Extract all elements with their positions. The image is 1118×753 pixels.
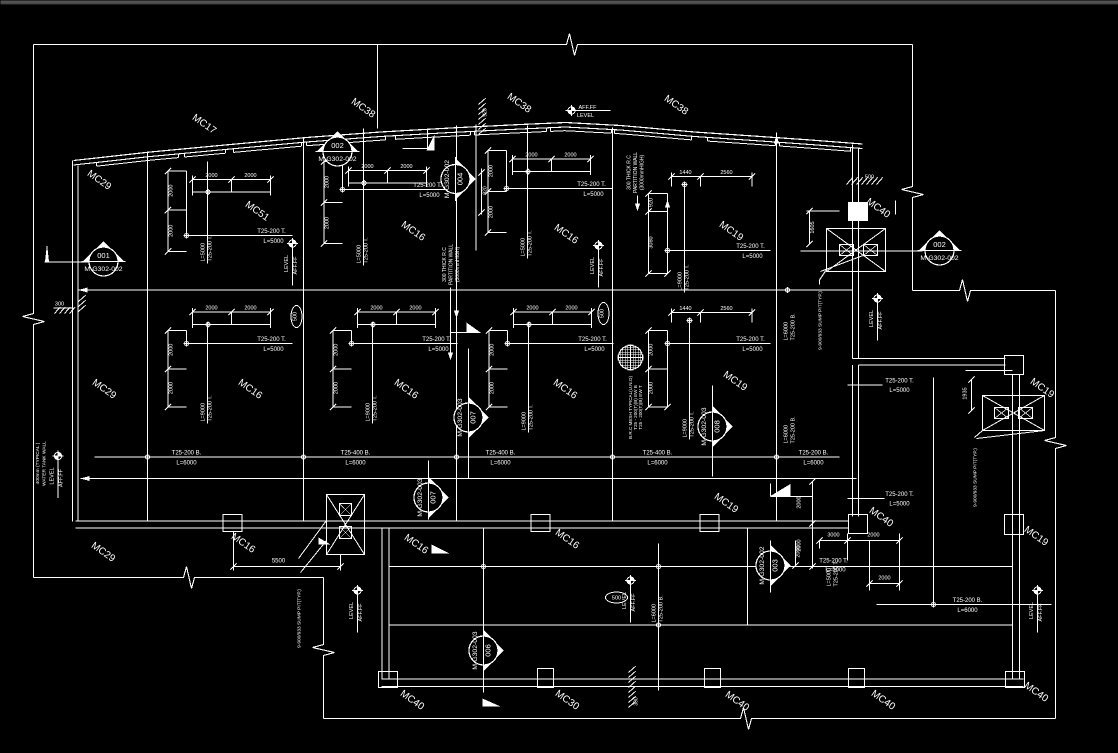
label MC29 at 102,391 <box>90 377 119 402</box>
svg-text:500: 500 <box>293 312 299 321</box>
svg-text:2000: 2000 <box>490 344 496 356</box>
svg-text:500: 500 <box>600 309 606 318</box>
svg-text:AFF.FF: AFF.FF <box>59 468 65 487</box>
svg-text:T25-200 T.: T25-200 T. <box>373 395 379 422</box>
label MC16 at 404,391 <box>392 377 421 402</box>
lower interior y624 <box>389 624 1013 626</box>
svg-text:004: 004 <box>456 173 465 186</box>
svg-text:L=6000: L=6000 <box>784 425 790 444</box>
label MC19 at 724,505 <box>712 491 741 516</box>
svg-text:T25-200 B.: T25-200 B. <box>172 451 202 457</box>
lower bldg corner col SW <box>379 672 398 688</box>
svg-text:2000: 2000 <box>325 217 331 229</box>
cut line x475 <box>475 125 477 251</box>
svg-text:T25-400 B.: T25-400 B. <box>486 451 516 457</box>
svg-text:2000: 2000 <box>370 306 382 312</box>
bay line 5 <box>612 128 614 522</box>
svg-text:L=5000: L=5000 <box>521 238 527 257</box>
svg-text:T25-200 T.: T25-200 T. <box>422 337 451 343</box>
svg-text:9-900/933 SUMP PIT(TYP.): 9-900/933 SUMP PIT(TYP.) <box>973 448 979 507</box>
svg-text:T25-200 T.: T25-200 T. <box>578 337 607 343</box>
oval 500 c <box>606 592 628 603</box>
right mid wall lower <box>853 365 859 517</box>
svg-text:AFF.FF: AFF.FF <box>1038 603 1044 622</box>
svg-text:AFF.FF: AFF.FF <box>293 256 299 275</box>
svg-text:2000: 2000 <box>867 533 879 539</box>
svg-text:L=5000: L=5000 <box>357 245 363 264</box>
svg-text:001: 001 <box>97 251 110 260</box>
callout 004 <box>441 157 476 201</box>
stub x895 top <box>895 201 897 215</box>
svg-text:T25-200 T.: T25-200 T. <box>834 560 840 587</box>
label MC40 at 881,702 <box>869 688 898 713</box>
bar text lower <box>953 598 983 614</box>
callout 001 <box>45 242 126 277</box>
wall column col709 <box>700 515 719 532</box>
dim 5500 <box>230 532 343 571</box>
label MC38 c <box>662 93 691 118</box>
svg-text:LEVEL: LEVEL <box>869 310 875 327</box>
lower bldg bottom wall <box>382 679 1024 687</box>
water tank text <box>35 441 48 486</box>
svg-text:3080: 3080 <box>649 236 655 248</box>
svg-text:L=9000: L=9000 <box>522 412 528 431</box>
dim cluster bay2 row1 <box>165 162 293 264</box>
label MC19 at 729,233 <box>717 219 746 244</box>
svg-text:AFF.FF: AFF.FF <box>599 258 605 277</box>
wall end column <box>849 515 868 534</box>
label MC51 at 255,213 <box>243 199 272 224</box>
label MC38 b <box>505 91 534 116</box>
svg-text:2000: 2000 <box>526 306 538 312</box>
callout 007 a <box>454 349 489 479</box>
label MC40 at 879,519 <box>867 505 896 530</box>
svg-text:2000: 2000 <box>878 576 890 582</box>
svg-text:L=5000: L=5000 <box>827 568 833 587</box>
svg-text:1440: 1440 <box>679 306 691 312</box>
partition text bay3 <box>442 244 461 319</box>
flag lower bldg small <box>319 538 331 545</box>
svg-text:2000: 2000 <box>797 496 803 508</box>
svg-text:T25-400 B.: T25-400 B. <box>341 451 371 457</box>
level sym bay2 row1 <box>284 238 299 286</box>
hatch arc right <box>847 175 883 185</box>
label MC16 at 241,545 <box>229 531 258 556</box>
svg-text:002: 002 <box>933 240 946 249</box>
label MC38 a <box>349 96 378 121</box>
upper building bottom wall <box>76 521 849 528</box>
label MC19 at 733,383 <box>721 369 750 394</box>
svg-text:M-G302-002: M-G302-002 <box>759 546 766 584</box>
svg-text:2000: 2000 <box>169 382 175 394</box>
lower wall column 856 <box>849 669 865 688</box>
svg-text:T25-200 T.: T25-200 T. <box>885 492 914 498</box>
svg-text:2000: 2000 <box>169 225 175 237</box>
svg-text:300: 300 <box>634 697 640 706</box>
svg-text:008: 008 <box>713 420 722 433</box>
dim cluster bay4 row1 <box>485 126 613 259</box>
svg-text:3000: 3000 <box>827 533 839 539</box>
rot text x658 <box>652 595 665 623</box>
lower wall column 545 <box>538 669 554 688</box>
top window strip <box>1 1 1118 5</box>
svg-text:2000: 2000 <box>244 173 256 179</box>
interior line y287 <box>79 287 853 293</box>
dim 2000 at 003 <box>792 541 801 569</box>
lower right dims <box>770 478 903 590</box>
svg-text:2560: 2560 <box>720 306 732 312</box>
svg-text:T25-200 T.: T25-200 T. <box>577 182 606 188</box>
svg-text:5500: 5500 <box>272 559 286 565</box>
svg-text:L=9000: L=9000 <box>201 403 207 422</box>
right wall column top <box>1005 356 1024 375</box>
svg-text:T25-200 T.: T25-200 T. <box>257 229 286 235</box>
svg-text:T25-200 T.: T25-200 T. <box>257 337 286 343</box>
label MC19 at 1040,390 <box>1028 376 1057 401</box>
svg-text:9-900/933 SUMP PIT(TYP.): 9-900/933 SUMP PIT(TYP.) <box>818 291 824 350</box>
dim cluster bay4 row2 <box>486 306 614 433</box>
oval 500 a <box>291 306 302 328</box>
svg-text:L=9000: L=9000 <box>683 419 689 438</box>
svg-text:300 THICK R.C: 300 THICK R.C <box>627 155 633 190</box>
line x658 <box>658 544 660 691</box>
leader right wall b <box>848 492 915 508</box>
label MC16 at 563,391 <box>551 377 580 402</box>
lower interior y604 <box>877 604 1052 606</box>
bay line 3 <box>303 139 305 522</box>
svg-text:T25-200 T.: T25-200 T. <box>364 237 370 264</box>
bar text 186 <box>172 451 202 467</box>
dim 1935 <box>963 371 1013 414</box>
label MC40 at 735,703 <box>723 689 752 714</box>
flag lower wall left <box>432 545 450 554</box>
lower bldg corner col SE <box>1006 672 1025 688</box>
svg-text:2000: 2000 <box>489 206 495 218</box>
svg-text:LEVEL: LEVEL <box>1029 602 1035 619</box>
label MC16 at 565,541 <box>553 527 582 552</box>
svg-text:L=5000: L=5000 <box>201 243 207 262</box>
right wall column upper <box>849 203 868 221</box>
label MC40 at 410,702 <box>398 688 427 713</box>
level sym left <box>50 451 65 499</box>
right upper wall <box>853 145 859 359</box>
bar text 657 <box>643 451 673 467</box>
svg-text:L=6000: L=6000 <box>803 461 824 467</box>
line x450 arrow <box>448 288 453 361</box>
bar text 813 <box>799 451 829 467</box>
svg-text:(3000mmHIGH): (3000mmHIGH) <box>640 155 646 191</box>
bay line 6 <box>774 133 779 522</box>
callout 007 b <box>414 461 449 520</box>
svg-text:L=9000: L=9000 <box>366 403 372 422</box>
wall column col540 <box>531 515 550 532</box>
flag arc mid <box>403 129 435 151</box>
svg-text:T25-200 T.: T25-200 T. <box>885 379 914 385</box>
label MC40 at 1034,694 <box>1022 680 1051 705</box>
svg-text:500: 500 <box>612 596 621 602</box>
line x747 <box>747 529 749 625</box>
level sym lower mid <box>622 575 637 623</box>
svg-text:300 THICK R.C: 300 THICK R.C <box>442 247 448 282</box>
svg-text:T25-200 T.: T25-200 T. <box>528 230 534 257</box>
label MC29 at 101,554 <box>89 540 118 565</box>
svg-text:LEVEL: LEVEL <box>590 257 596 274</box>
svg-text:L=6000: L=6000 <box>652 604 658 623</box>
svg-text:007: 007 <box>429 491 438 504</box>
label MC17 <box>190 112 219 137</box>
svg-text:1440: 1440 <box>679 170 691 176</box>
svg-text:2000: 2000 <box>409 306 421 312</box>
svg-text:300: 300 <box>55 302 64 308</box>
callout 003 <box>756 541 791 593</box>
lower bldg left wall <box>382 529 389 680</box>
svg-text:T25-200 B.: T25-200 B. <box>953 598 983 604</box>
svg-text:007: 007 <box>469 411 478 424</box>
svg-text:M-G302-003: M-G302-003 <box>472 631 479 669</box>
svg-text:M-G302-002: M-G302-002 <box>318 156 356 163</box>
grid line top <box>377 45 379 129</box>
svg-text:2000: 2000 <box>649 344 655 356</box>
svg-text:L=6000: L=6000 <box>647 461 668 467</box>
svg-text:T25-200 B.: T25-200 B. <box>659 595 665 623</box>
label MC16 at 411,233 <box>399 219 428 244</box>
left wall <box>73 161 79 522</box>
svg-text:500: 500 <box>865 175 874 181</box>
svg-text:(3000mmHIGH): (3000mmHIGH) <box>455 247 461 283</box>
bay line 4 <box>456 126 458 522</box>
svg-text:2000: 2000 <box>334 344 340 356</box>
leader right wall a <box>848 379 915 395</box>
svg-text:2000: 2000 <box>565 306 577 312</box>
svg-text:T25-200 T.: T25-200 T. <box>685 264 691 291</box>
svg-text:2000: 2000 <box>489 165 495 177</box>
svg-text:L=5000: L=5000 <box>419 193 440 199</box>
sump pit A text <box>818 291 824 350</box>
svg-text:LEVEL: LEVEL <box>50 467 56 484</box>
svg-text:M-G302-003: M-G302-003 <box>457 398 464 436</box>
right wall column mid <box>1005 515 1024 535</box>
svg-text:L=6000: L=6000 <box>784 322 790 341</box>
svg-text:2560: 2560 <box>720 170 732 176</box>
svg-text:L=5000: L=5000 <box>584 347 605 353</box>
svg-text:2000: 2000 <box>649 382 655 394</box>
svg-text:9-900/933 SUMP PIT(TYP.): 9-900/933 SUMP PIT(TYP.) <box>297 589 303 648</box>
label MC19 at 1034,538 <box>1022 524 1051 549</box>
svg-text:T25-200 T.: T25-200 T. <box>208 395 214 422</box>
svg-text:2000: 2000 <box>169 344 175 356</box>
flag bay3 row2 <box>451 323 481 333</box>
svg-text:T25-400 B.: T25-400 B. <box>643 451 673 457</box>
dim cluster bay3 row1 <box>321 129 449 266</box>
callout 006 <box>469 629 504 673</box>
svg-text:920: 920 <box>483 186 489 195</box>
bay line 2 <box>147 153 149 522</box>
hatch lower wall <box>629 666 640 707</box>
svg-text:2000: 2000 <box>490 382 496 394</box>
svg-text:L=6000: L=6000 <box>957 608 978 614</box>
sump pit B <box>975 396 1045 439</box>
svg-text:L=6000: L=6000 <box>176 461 197 467</box>
svg-text:T25-200 T.: T25-200 T. <box>736 337 765 343</box>
svg-text:L=6000: L=6000 <box>345 461 366 467</box>
svg-text:T25-200 B.: T25-200 B. <box>791 416 797 444</box>
svg-text:LEVEL: LEVEL <box>349 602 355 619</box>
svg-text:AFF.FF: AFF.FF <box>878 311 884 330</box>
svg-text:L=6000: L=6000 <box>490 461 511 467</box>
svg-text:2000: 2000 <box>564 153 576 159</box>
svg-text:1605: 1605 <box>810 221 816 233</box>
svg-text:920: 920 <box>483 108 489 117</box>
wall column col232 <box>223 515 242 532</box>
level sym right upper <box>869 293 884 341</box>
svg-text:T25-200 T.: T25-200 T. <box>736 244 765 250</box>
svg-text:T25-200 T.: T25-200 T. <box>413 183 442 189</box>
label MC30 at 565,702 <box>553 688 582 713</box>
svg-text:M-G302-003: M-G302-003 <box>417 478 424 516</box>
svg-text:2000: 2000 <box>400 164 412 170</box>
svg-text:T25 - 200(T)(B) EW T: T25 - 200(T)(B) EW T <box>638 385 643 430</box>
svg-text:920: 920 <box>649 198 655 207</box>
svg-text:L=9000: L=9000 <box>678 272 684 291</box>
nodes on y456 <box>144 454 779 460</box>
curved roof wall <box>74 123 863 167</box>
dim cluster bay2 row2 <box>165 306 293 424</box>
svg-text:PARTITION WALL: PARTITION WALL <box>633 152 639 193</box>
label MC16 at 248,391 <box>236 377 265 402</box>
svg-text:2000: 2000 <box>796 545 802 557</box>
svg-text:002: 002 <box>331 141 344 150</box>
svg-text:M-G302-002: M-G302-002 <box>84 266 122 273</box>
svg-text:L=5000: L=5000 <box>889 388 910 394</box>
svg-text:LEVEL: LEVEL <box>577 113 594 119</box>
sump pit C text <box>297 589 303 648</box>
svg-text:L=5000: L=5000 <box>263 239 284 245</box>
bar text 500 <box>486 451 516 467</box>
label MC29 at 97,182 <box>85 168 114 193</box>
callout 008 <box>698 386 733 477</box>
rot text x790 a <box>784 313 797 341</box>
svg-text:L=5000: L=5000 <box>742 347 763 353</box>
dim cluster bay3 row2 <box>330 306 458 424</box>
svg-text:T25-200 T.: T25-200 T. <box>208 235 214 262</box>
svg-text:L=5000: L=5000 <box>428 347 449 353</box>
sump pit B text <box>973 448 979 507</box>
svg-text:L=5000: L=5000 <box>263 347 284 353</box>
bottom-bar line y456 <box>95 456 840 458</box>
svg-text:2000: 2000 <box>325 176 331 188</box>
sump pit A <box>820 229 886 285</box>
interior line y476 <box>81 476 857 481</box>
line x485 <box>483 529 501 707</box>
lower wall column 712 <box>705 669 721 688</box>
callout 002 <box>316 132 360 167</box>
dim 920 partition <box>478 169 488 216</box>
svg-text:006: 006 <box>484 644 493 657</box>
svg-text:AFF.FF: AFF.FF <box>358 603 364 622</box>
svg-text:T25-200 B.: T25-200 B. <box>791 313 797 341</box>
svg-text:400mm (TYPICAL ): 400mm (TYPICAL ) <box>35 442 41 484</box>
level sym bay4 row1 <box>590 240 605 288</box>
dim cluster bay5 row1 <box>645 170 770 293</box>
svg-text:L=5000: L=5000 <box>742 254 763 260</box>
svg-text:M-G302-002: M-G302-002 <box>920 255 958 262</box>
dim cluster bay5 row2 <box>645 306 770 440</box>
label MC16 at 564,236 <box>552 222 581 247</box>
right lower wall vertical <box>1013 375 1020 680</box>
nodes lower bldg <box>480 563 936 628</box>
level sym lower left <box>349 585 364 633</box>
svg-text:M-G302-003: M-G302-003 <box>701 407 708 445</box>
dim 1605 <box>806 208 839 247</box>
mid-right wall horizontal <box>853 359 1006 366</box>
label MC16 at 414,546 <box>402 532 431 557</box>
svg-text:T25-200 T.: T25-200 T. <box>529 404 535 431</box>
label MC40 at 876,210 <box>864 196 893 221</box>
svg-text:L=5000: L=5000 <box>889 502 910 508</box>
bar text 355 <box>341 451 371 467</box>
line x933 <box>933 378 935 605</box>
svg-text:L=5000: L=5000 <box>583 192 604 198</box>
partition text bay5 <box>627 152 646 212</box>
rot text x790 b <box>784 416 797 444</box>
sump pit C <box>299 495 365 573</box>
hatch left wall <box>54 295 90 313</box>
svg-text:003: 003 <box>771 559 780 572</box>
svg-text:PARTITION WALL: PARTITION WALL <box>449 244 455 285</box>
svg-text:2000: 2000 <box>244 306 256 312</box>
svg-text:T25-200 B.: T25-200 B. <box>799 451 829 457</box>
svg-text:2000: 2000 <box>169 185 175 197</box>
hatch partition top <box>479 98 489 134</box>
BRC mesh text <box>628 376 643 439</box>
callout 002 right <box>801 231 962 266</box>
svg-text:LEVEL: LEVEL <box>284 255 290 272</box>
svg-text:T25-200 T.: T25-200 T. <box>690 411 696 438</box>
BRC mesh symbol <box>618 345 644 371</box>
level sym right lower <box>1029 585 1044 633</box>
svg-text:2000: 2000 <box>205 306 217 312</box>
svg-text:AFF.FF: AFF.FF <box>578 105 597 111</box>
svg-text:AFF.FF: AFF.FF <box>631 593 637 612</box>
svg-text:M-G302-002: M-G302-002 <box>444 160 451 198</box>
oval 500 b <box>598 303 609 325</box>
level sym top arc <box>566 105 611 119</box>
svg-text:1935: 1935 <box>963 387 969 399</box>
svg-text:WATER TANK WALL: WATER TANK WALL <box>42 441 48 486</box>
svg-text:2000: 2000 <box>334 382 340 394</box>
lower interior y566 <box>389 566 1013 568</box>
